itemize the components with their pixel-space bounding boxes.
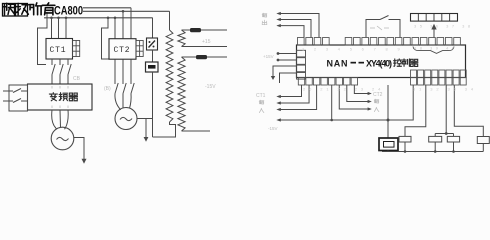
svg-text:31 32 33 34: 31 32 33 34 <box>413 87 477 92</box>
svg-text:CT1: CT1 <box>50 46 67 55</box>
svg-text:CT2: CT2 <box>373 92 383 98</box>
svg-text:XY4(40): XY4(40) <box>366 59 392 69</box>
svg-text:CB: CB <box>73 76 81 82</box>
svg-text:(B): (B) <box>104 86 111 92</box>
svg-text:35 36 37 38: 35 36 37 38 <box>414 24 474 29</box>
svg-text:-15V: -15V <box>205 84 216 90</box>
svg-text:-15V: -15V <box>268 126 278 131</box>
svg-text:+15: +15 <box>202 39 211 45</box>
svg-text:20 21 22 23 24: 20 21 22 23 24 <box>303 87 384 92</box>
svg-text:+15V: +15V <box>263 54 274 59</box>
svg-text:CT2: CT2 <box>114 46 131 55</box>
svg-text:NAN: NAN <box>327 59 348 69</box>
svg-text:CA800: CA800 <box>54 4 83 18</box>
svg-text:1 2 3 4 5 6 7 8 9: 1 2 3 4 5 6 7 8 9 <box>302 47 404 52</box>
svg-text:38 39 40: 38 39 40 <box>414 46 458 51</box>
svg-text:CT1: CT1 <box>256 93 266 99</box>
